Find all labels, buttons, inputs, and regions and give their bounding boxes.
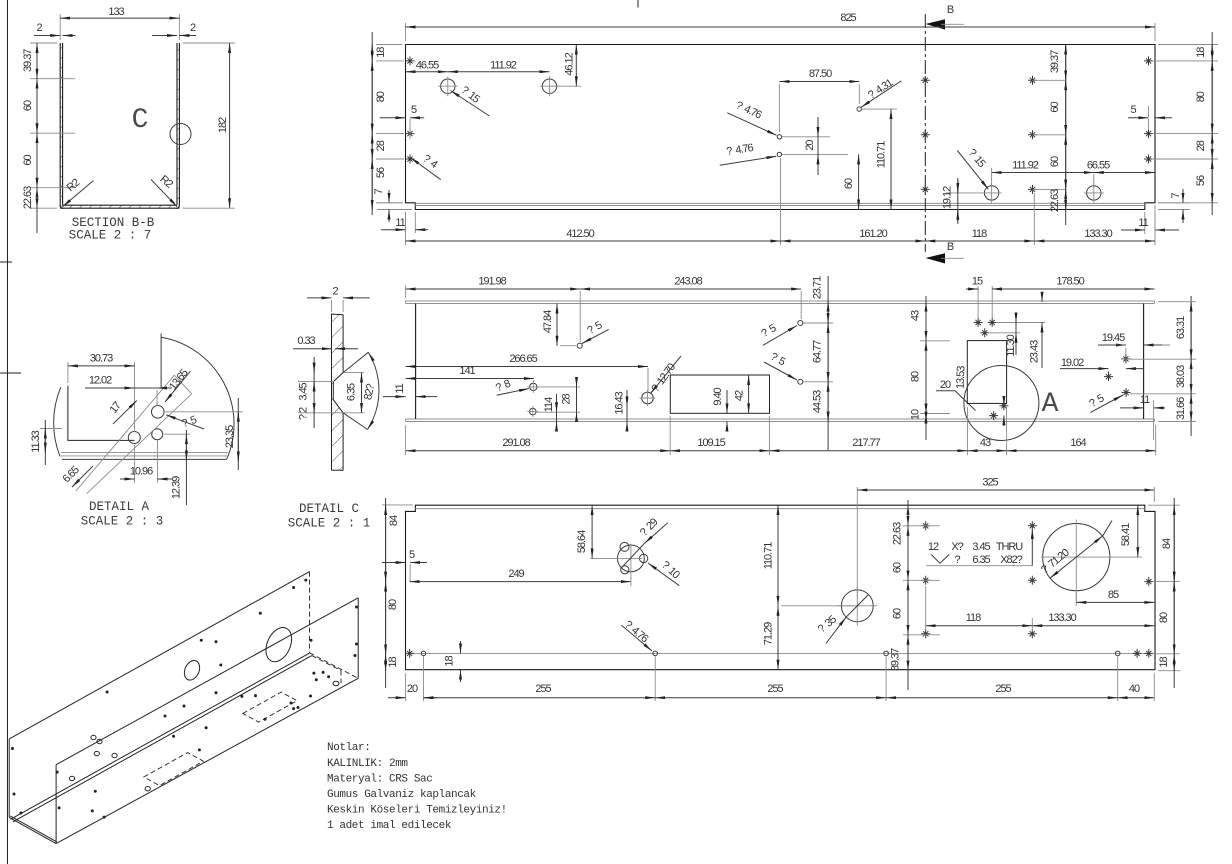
svg-text:22.63: 22.63	[892, 522, 904, 545]
border tick top center	[637, 0, 639, 8]
dim 111.92	[448, 71, 550, 73]
svg-text:18: 18	[444, 656, 456, 667]
countersink angle radials	[343, 352, 368, 429]
dim 110.71	[777, 505, 779, 606]
dim 60 vertical	[858, 154, 860, 209]
leader D4.31	[861, 81, 901, 108]
svg-text:A: A	[1042, 389, 1059, 420]
svg-text:13.53: 13.53	[955, 366, 968, 390]
svg-text:133.30: 133.30	[1084, 228, 1112, 240]
dim 47.84	[560, 345, 576, 347]
countersunk hole cluster	[618, 545, 645, 572]
leader R2 left	[63, 181, 94, 207]
svg-text:11: 11	[1138, 217, 1148, 229]
dim 28	[537, 387, 580, 412]
dim 15	[966, 288, 978, 290]
svg-text:18: 18	[387, 657, 399, 668]
svg-text:DETAIL A: DETAIL A	[89, 500, 150, 514]
section B-B channel walls outline	[60, 43, 179, 208]
front wall right edge	[357, 598, 359, 679]
dim 2 top	[332, 300, 344, 312]
boundary top vertical	[160, 333, 162, 388]
svg-text:412.50: 412.50	[566, 228, 594, 240]
hole crosses right column	[1144, 56, 1153, 65]
bottom left fold	[9, 816, 57, 844]
countersink notch white fill	[333, 373, 343, 413]
chain 63.31/38.03/31.66	[1190, 296, 1192, 436]
bend line double	[415, 203, 1145, 205]
svg-text:38.03: 38.03	[1175, 365, 1187, 388]
svg-text:84: 84	[388, 515, 400, 526]
hole h3	[152, 429, 163, 440]
small open hole ellipses front wall	[69, 681, 339, 791]
row holes small circles	[421, 651, 426, 656]
front wall left edge	[55, 765, 57, 844]
svg-text:10.96: 10.96	[130, 466, 153, 478]
svg-text:THRU: THRU	[996, 541, 1023, 553]
dim 141	[533, 380, 535, 382]
svg-text:249: 249	[508, 568, 524, 580]
chain 39.37/60/60/22.63 inside right	[1033, 80, 1067, 189]
hidden cutout web 1	[144, 753, 204, 786]
svg-text:39.37: 39.37	[22, 49, 34, 72]
dim 161.20	[781, 240, 926, 242]
dim 46.12	[552, 85, 581, 87]
leader D4.76 upper	[727, 113, 776, 136]
dim 17 slanted	[113, 401, 137, 425]
dim 178.50	[992, 288, 1154, 290]
svg-text:18: 18	[1195, 47, 1207, 58]
section line B-B dash-dot	[924, 14, 926, 252]
dim 7 right notch	[1158, 203, 1190, 210]
svg-text:44.53: 44.53	[812, 390, 824, 413]
svg-text:80: 80	[1195, 91, 1207, 102]
svg-text:11: 11	[1140, 394, 1150, 406]
svg-text:191.98: 191.98	[478, 276, 506, 288]
svg-text:243.08: 243.08	[674, 276, 702, 288]
svg-text:KALINLIK: 2mm: KALINLIK: 2mm	[327, 758, 408, 770]
left chain extension lines	[376, 45, 404, 203]
crosses grid right	[921, 521, 930, 530]
dim 12.39	[164, 433, 190, 435]
svg-text:178.50: 178.50	[1056, 276, 1084, 288]
cross 19.45	[1121, 354, 1130, 363]
svg-text:80: 80	[1158, 612, 1170, 623]
svg-text:C: C	[132, 105, 149, 136]
svg-text:291.08: 291.08	[502, 437, 530, 449]
extension through h2 column	[156, 390, 158, 406]
dim 11 left notch	[406, 212, 416, 233]
detail C bubble circle	[170, 124, 191, 145]
row extension y393.8	[1130, 393, 1196, 395]
dim 182 right	[183, 43, 235, 208]
dim 11.33	[40, 428, 62, 430]
leader D5 right	[1090, 395, 1123, 412]
svg-text:60: 60	[892, 608, 904, 619]
svg-text:266.65: 266.65	[509, 353, 537, 365]
front wall top edge	[56, 598, 358, 765]
svg-text:255: 255	[535, 683, 551, 695]
leader D10	[648, 563, 679, 586]
chain dim 39.37	[36, 43, 38, 79]
svg-text:141: 141	[459, 365, 475, 377]
dim 133	[60, 14, 179, 40]
dim 58.64	[591, 505, 593, 558]
svg-text:46.55: 46.55	[416, 60, 439, 72]
chain dim 22.63	[36, 188, 38, 209]
leader D4.76	[622, 625, 653, 651]
web end edge right	[1143, 304, 1145, 420]
svg-text:46.12: 46.12	[564, 52, 576, 75]
svg-text:133.30: 133.30	[1048, 612, 1076, 624]
svg-text:60: 60	[892, 562, 904, 573]
svg-text:255: 255	[995, 683, 1011, 695]
svg-text:42: 42	[734, 390, 746, 401]
svg-text:58.41: 58.41	[1120, 523, 1132, 546]
svg-text:114: 114	[543, 397, 555, 412]
leader D29	[644, 523, 667, 544]
small crosses in detail A zone	[999, 401, 1008, 410]
dim 19.02	[1108, 371, 1110, 375]
small holes dots	[11, 579, 358, 819]
svg-text:10: 10	[910, 409, 922, 420]
svg-text:19.12: 19.12	[942, 186, 954, 209]
bottom dim row extensions	[406, 656, 1155, 701]
svg-text:23.43: 23.43	[1029, 340, 1041, 363]
detail A bubble circle	[964, 366, 1039, 441]
svg-text:325: 325	[982, 477, 998, 489]
chain 23.71/64.77/44.53	[803, 323, 833, 382]
dim 164	[1007, 450, 1156, 452]
dim 110.71 vertical	[862, 108, 897, 110]
svg-text:255: 255	[767, 683, 783, 695]
svg-text:23.71: 23.71	[812, 276, 824, 299]
bar outline	[332, 314, 344, 470]
svg-text:58.64: 58.64	[576, 530, 588, 553]
bottom front edge	[56, 678, 358, 843]
dim 825	[406, 23, 1156, 41]
svg-text:60: 60	[1049, 156, 1061, 167]
hidden edges right end	[310, 653, 359, 683]
back wall right edge	[309, 572, 311, 653]
svg-text:? 2: ? 2	[298, 407, 310, 420]
svg-text:19.45: 19.45	[1102, 332, 1125, 344]
svg-text:15: 15	[972, 276, 983, 288]
bottom bend lines	[61, 452, 228, 456]
section arrow B bottom	[926, 253, 946, 263]
page border left	[7, 0, 9, 864]
svg-text:SCALE 2 : 1: SCALE 2 : 1	[288, 517, 371, 531]
dim 11 left end	[383, 396, 406, 398]
left chain 84/80/18	[385, 498, 387, 688]
svg-text:16.43: 16.43	[614, 391, 626, 414]
svg-text:22.63: 22.63	[1049, 189, 1061, 212]
holes D5 pair right	[798, 321, 803, 326]
left chain extension lines	[30, 43, 75, 208]
bottom flange edge double line	[406, 419, 1155, 422]
dim 23.35	[165, 411, 243, 413]
leader D5	[166, 415, 204, 429]
svg-text:DETAIL C: DETAIL C	[299, 502, 359, 516]
bottom dim row extensions	[406, 407, 1156, 455]
svg-text:20: 20	[940, 379, 951, 391]
svg-text:19.02: 19.02	[1061, 357, 1084, 369]
svg-text:39.37: 39.37	[890, 648, 902, 671]
hole row line	[410, 652, 1150, 654]
svg-text:110.71: 110.71	[763, 542, 775, 569]
dim 11.30	[988, 323, 1045, 333]
svg-text:110.71: 110.71	[876, 141, 888, 168]
border tick y373	[0, 372, 21, 374]
dim 42	[748, 375, 750, 413]
svg-text:60: 60	[22, 155, 34, 166]
dim 6.65 slanted	[72, 466, 93, 487]
dim 118	[925, 240, 1034, 242]
dim 11 right end	[1120, 407, 1144, 409]
crosses top right trio	[974, 318, 983, 327]
dim 118	[926, 586, 1033, 631]
svg-text:60: 60	[1049, 102, 1061, 113]
svg-text:B: B	[947, 4, 954, 16]
leader D5 upper	[763, 326, 797, 346]
dim 23.43	[1041, 323, 1043, 369]
svg-text:12: 12	[928, 541, 939, 553]
extension left of notch	[382, 504, 413, 506]
svg-text:43: 43	[980, 437, 991, 449]
svg-text:12.02: 12.02	[89, 375, 112, 387]
hole D71.20	[1043, 524, 1110, 591]
leader D71.20 diameter	[1050, 536, 1103, 578]
right chain 84/80/18	[1148, 505, 1180, 671]
dim 19.45	[1126, 345, 1170, 356]
svg-text:111.92: 111.92	[490, 60, 517, 72]
svg-text:43: 43	[910, 310, 922, 321]
hole D12.70	[642, 392, 654, 404]
detail boundary left arc	[54, 387, 61, 456]
dim 19.12	[946, 192, 984, 194]
section arrow B top	[926, 19, 946, 29]
leader D4.76 lower	[720, 156, 777, 165]
svg-text:20: 20	[407, 683, 418, 695]
svg-text:217.77: 217.77	[852, 437, 880, 449]
svg-text:109.15: 109.15	[697, 437, 725, 449]
svg-text:39.37: 39.37	[1049, 50, 1061, 73]
svg-text:31.66: 31.66	[1175, 397, 1187, 420]
dim 6.35	[361, 373, 363, 413]
svg-text:118: 118	[966, 612, 981, 624]
dim 255 c	[886, 697, 1118, 699]
dim 191.98	[406, 288, 581, 290]
dim 30.73	[68, 362, 135, 432]
small hole ellipse back wall	[181, 658, 202, 682]
hole h1	[128, 432, 140, 444]
svg-text:133: 133	[108, 6, 124, 18]
big hole ellipse back wall	[261, 623, 297, 665]
hole crosses left column	[406, 56, 415, 65]
svg-text:22.63: 22.63	[22, 186, 34, 209]
dim 255 b	[655, 697, 886, 699]
bend line	[415, 508, 1144, 510]
svg-text:80: 80	[387, 599, 399, 610]
cross 19.02	[1104, 372, 1113, 381]
hole D4.31	[857, 107, 861, 111]
svg-text:3.45: 3.45	[298, 382, 310, 400]
dim 11 right notch	[1145, 205, 1155, 234]
chain 22.63/60/60/39.37	[903, 526, 940, 635]
small hole below D8	[530, 408, 537, 415]
svg-text:6.35: 6.35	[972, 554, 990, 566]
countersink edges	[333, 373, 343, 413]
right chain extension lines	[1152, 45, 1218, 203]
svg-text:80: 80	[910, 371, 922, 382]
dim 40	[1118, 697, 1155, 699]
svg-text:40: 40	[1129, 683, 1140, 695]
svg-text:56: 56	[375, 167, 387, 178]
svg-text:63.31: 63.31	[1175, 316, 1187, 339]
dim 20 vertical	[782, 137, 848, 155]
dim 249	[410, 581, 631, 583]
dim 18 inner	[460, 641, 462, 653]
svg-text:SCALE 2 : 3: SCALE 2 : 3	[81, 515, 164, 529]
dim 10.96	[135, 440, 158, 483]
svg-text:66.55: 66.55	[1087, 160, 1110, 172]
svg-text:47.84: 47.84	[542, 310, 554, 333]
chain dim 60 lower	[36, 133, 38, 188]
hole crosses on B-B line	[921, 76, 930, 85]
svg-text:11.33: 11.33	[30, 430, 42, 452]
hole h2	[152, 406, 165, 419]
svg-text:182: 182	[217, 117, 229, 133]
wall hatching left	[60, 43, 63, 207]
svg-text:56: 56	[1195, 175, 1207, 186]
holes D4.76	[777, 135, 781, 139]
dim 111.92 right	[992, 168, 1094, 188]
dim 9.40	[726, 390, 728, 413]
dim pair left	[313, 357, 315, 428]
angle arc 82	[368, 352, 379, 429]
hole D35	[841, 590, 873, 622]
dim 13.65 slanted	[165, 371, 190, 402]
svg-text:825: 825	[840, 12, 856, 24]
dim 243.08	[580, 288, 801, 290]
dim 87.50	[779, 84, 859, 132]
svg-text:28: 28	[375, 140, 387, 151]
dim 2 right	[152, 35, 177, 37]
web end edge left	[415, 304, 417, 420]
cross D5 right	[1122, 388, 1131, 397]
svg-text:18: 18	[1158, 657, 1170, 668]
leader D8	[497, 389, 529, 396]
dim 66.55	[1094, 172, 1155, 174]
svg-text:X82?: X82?	[1000, 554, 1022, 566]
web rectangular cutout	[670, 375, 769, 413]
svg-text:11: 11	[395, 217, 405, 229]
detail boundary big arc	[161, 337, 234, 460]
svg-text:87.50: 87.50	[809, 68, 832, 80]
dim 12.02	[85, 387, 172, 389]
border tick y262	[0, 261, 12, 263]
back wall left edge	[8, 739, 10, 818]
svg-text:0.33: 0.33	[297, 335, 315, 347]
svg-text:30.73: 30.73	[90, 353, 113, 365]
svg-text:60: 60	[843, 178, 855, 189]
svg-text:1 adet imal edilecek: 1 adet imal edilecek	[327, 820, 452, 832]
svg-text:60: 60	[22, 100, 34, 111]
svg-text:71.29: 71.29	[763, 622, 775, 645]
dim 114	[556, 394, 558, 430]
svg-text:B: B	[947, 241, 954, 253]
hole D8	[530, 383, 537, 390]
right chain dims 18 80 28 56	[1211, 32, 1213, 215]
web bend double line	[11, 653, 312, 822]
hole crosses column x1032	[1028, 76, 1037, 85]
dim 2 left	[34, 35, 60, 37]
dim 109.15	[670, 450, 769, 452]
part end edges	[68, 386, 135, 441]
leader D5 lower	[764, 362, 797, 380]
top dim row extensions	[406, 285, 993, 342]
svg-text:84: 84	[1161, 538, 1173, 549]
dim 20	[388, 697, 406, 699]
notes text block	[327, 742, 507, 832]
svg-text:3.45: 3.45	[972, 541, 990, 553]
countersink extension lines	[298, 373, 365, 413]
svg-text:X?: X?	[951, 541, 963, 553]
dim 7 left notch	[377, 203, 412, 210]
leader D5 top	[582, 329, 609, 343]
svg-text:SCALE 2 : 7: SCALE 2 : 7	[69, 229, 152, 243]
svg-text:164: 164	[1070, 437, 1086, 449]
svg-text:111.92: 111.92	[1012, 160, 1039, 172]
left chain dims 18 80 28 56	[371, 32, 373, 215]
leader D15 bottom right	[957, 151, 988, 190]
back wall top edge	[9, 572, 309, 739]
dim 85	[1075, 592, 1077, 606]
svg-text:80: 80	[375, 91, 387, 102]
svg-text:23.35: 23.35	[224, 425, 236, 448]
top flange edge double line	[406, 301, 1155, 304]
dim 58.41	[1110, 556, 1142, 558]
top view outline with corner notches	[406, 45, 1156, 210]
dim 71.29	[777, 606, 779, 670]
slanted slot band	[76, 375, 192, 494]
leader D4	[410, 158, 441, 180]
row extension y359	[1121, 358, 1196, 360]
svg-text:9.40: 9.40	[712, 387, 724, 405]
svg-text:6.35: 6.35	[346, 383, 358, 401]
svg-text:12.39: 12.39	[171, 476, 183, 499]
wall hatching bottom	[63, 205, 178, 208]
dim 217.77	[769, 450, 967, 452]
wall corner arcs	[60, 205, 179, 208]
svg-text:28: 28	[561, 394, 573, 405]
chain 43/80/10	[920, 341, 950, 414]
web cutout near A	[967, 341, 1006, 404]
svg-text:18: 18	[375, 47, 387, 58]
svg-text:161.20: 161.20	[859, 228, 887, 240]
dim 255 a	[424, 697, 656, 699]
leader D15	[451, 91, 490, 117]
wall hatching right	[177, 43, 180, 207]
svg-text:20: 20	[804, 140, 816, 151]
dim 46.55	[406, 71, 448, 73]
svg-text:64.77: 64.77	[812, 340, 824, 363]
dim 412.50	[406, 240, 781, 242]
dim 43	[968, 450, 1007, 452]
svg-text:Materyal: CRS Sac: Materyal: CRS Sac	[327, 774, 432, 786]
dim 0.33	[293, 348, 332, 350]
dim 266.65	[647, 368, 649, 391]
